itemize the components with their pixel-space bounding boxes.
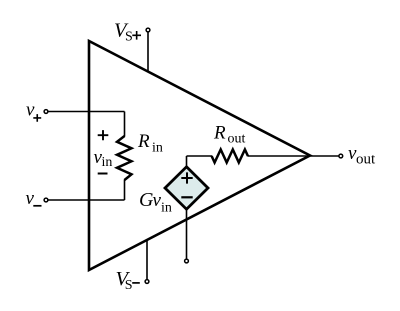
svg-text:out: out [228,132,246,147]
svg-text:in: in [102,155,113,170]
svg-text:S: S [125,278,133,293]
svg-text:in: in [161,201,172,216]
svg-text:v: v [26,188,35,209]
svg-text:R: R [137,131,150,152]
svg-text:R: R [213,123,226,144]
svg-text:out: out [356,152,376,168]
svg-text:in: in [152,141,163,156]
svg-text:S: S [125,30,133,45]
